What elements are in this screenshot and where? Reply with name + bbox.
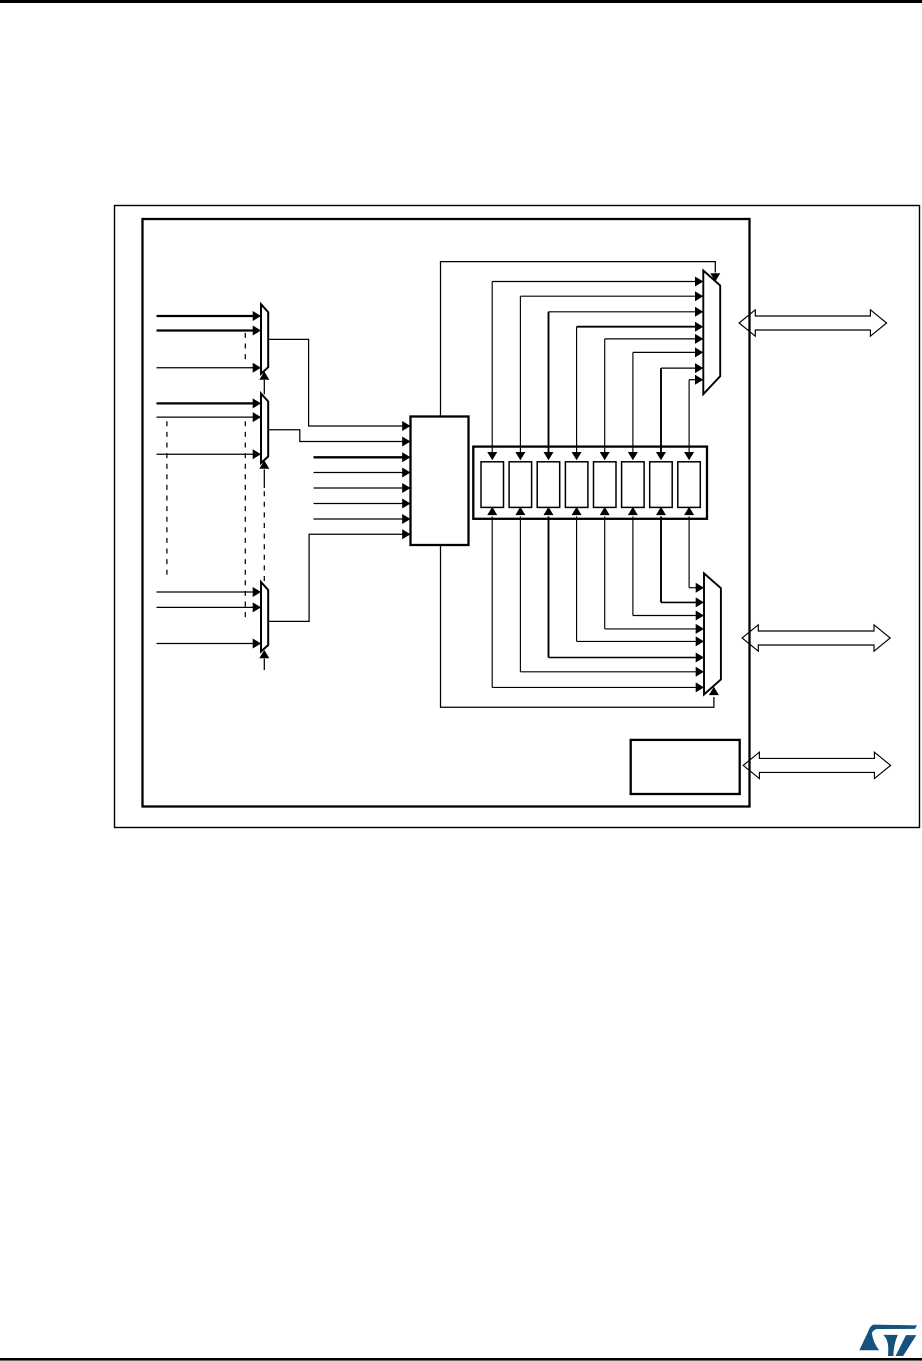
page bottom rule [0,1358,922,1361]
wire: U1 to M5 select (down, across bottom, arrow up) [441,545,719,707]
wire: register bit 0 top link to M4 input 1 [487,277,703,461]
wire: register bit 0 bottom link to M5 input [487,507,704,693]
wire: register bit 1 bottom link to M5 input [515,507,704,677]
register-file container [473,447,707,519]
mux M4 (top-right 8:1 selector) [703,271,720,395]
wire: register bit 2 top link to M4 input 3 [543,307,703,461]
register bit cell 0 [481,462,504,508]
dashed ellipsis line (between M1 inputs) [244,333,246,365]
page top rule [0,0,922,3]
wire: register bit 7 top link to M4 input 8 [684,375,703,461]
register bit cell 3 [565,462,588,508]
port B bidirectional bus arrow [742,625,890,651]
wire: register bit 6 top link to M4 input 7 [656,363,703,460]
outer figure frame [115,206,920,828]
wire: input arrow 1 into left mux [157,311,262,321]
wire: input arrow 7 into left mux [157,587,262,597]
wire: U1 to M4 select (up, across top, arrow down) [441,262,721,417]
wire: register bit 7 bottom link to M5 input [684,507,704,593]
ST logo [859,1325,917,1356]
interface bidirectional bus arrow [743,752,890,778]
wire: bus arrow into U1 input 6 [314,499,411,509]
wire: M3 output to U1 input 8 [268,529,410,621]
mux M1 (top-left selector) [261,304,268,374]
wire: M1 output to U1 input 1 [268,339,410,431]
inner block boundary [143,219,750,807]
dashed ellipsis line left column [166,421,168,576]
wire: input arrow 6 into left mux [157,449,262,459]
register bit cell 6 [650,462,673,508]
wire: register bit 3 top link to M4 input 4 [572,322,704,461]
wire: input arrow 9 into left mux [157,639,262,649]
wire: bus arrow into U1 input 7 [314,514,411,524]
wire: register bit 6 bottom link to M5 input [656,507,704,608]
wire: input arrow 3 into left mux [157,363,262,373]
wire: register bit 5 top link to M4 input 6 [628,347,703,460]
wire: input arrow 8 into left mux [157,602,262,612]
register bit cell 1 [509,462,531,508]
wire: M2 select (arrow up into M2 bottom, dashed continuation) [259,461,269,582]
interface block U2 (bottom right) [631,740,740,794]
register bit cell 4 [594,462,617,508]
wire: register bit 5 bottom link to M5 input [628,507,704,621]
mux M2 (middle-left selector) [261,394,268,464]
wire: register bit 4 top link to M4 input 5 [600,334,704,460]
wire: bus arrow into U1 input 4 [314,468,411,478]
wire: M1 select (arrow up into M1 bottom) [259,372,269,395]
register bit cell 2 [537,462,560,508]
wire: register bit 3 bottom link to M5 input [572,507,704,647]
wire: input arrow 4 into left mux [157,398,262,408]
wire: bus arrow into U1 input 5 [314,483,411,493]
mux M3 (bottom-left selector) [261,582,268,652]
wire: input arrow 2 into left mux [157,326,262,336]
wire: register bit 1 top link to M4 input 2 [515,291,703,460]
register bit cell 7 [678,462,701,508]
register bit cell 5 [622,462,645,508]
central control block U1 [411,417,469,546]
wire: register bit 2 bottom link to M5 input [543,507,704,663]
wire: bus arrow into U1 input 3 [314,452,411,462]
mux M5 (bottom-right 8:1 selector) [704,573,721,694]
port A bidirectional bus arrow [739,310,887,336]
wire: register bit 4 bottom link to M5 input [600,507,704,634]
wire: M2 output to U1 input 2 [268,430,410,447]
wire: M3 select (arrow up into M3 bottom) [259,650,269,670]
wire: input arrow 5 into left mux [157,412,262,422]
dashed ellipsis line middle column [244,421,246,622]
